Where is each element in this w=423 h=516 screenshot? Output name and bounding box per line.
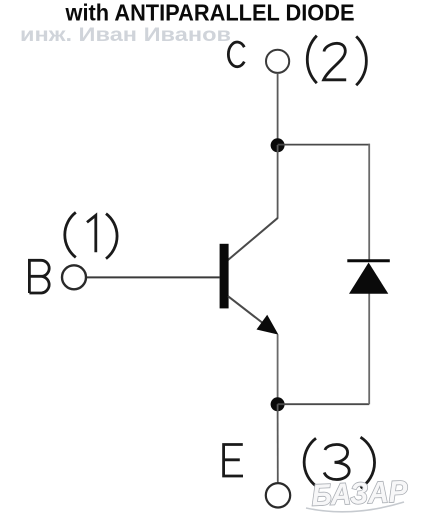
wire top horizontal to diode branch bbox=[278, 144, 370, 146]
svg-text:with ANTIPARALLEL DIODE: with ANTIPARALLEL DIODE bbox=[65, 0, 355, 26]
wire bottom horizontal to diode branch bbox=[278, 403, 370, 405]
watermark bazar logo bbox=[311, 475, 409, 512]
pin label (2) bbox=[307, 36, 366, 86]
transistor Q1 emitter arrowhead bbox=[257, 315, 279, 335]
terminal E circle bbox=[266, 483, 290, 507]
terminal label C bbox=[228, 42, 244, 67]
node top junction bbox=[271, 138, 285, 152]
svg-text:БАЗАР: БАЗАР bbox=[311, 475, 409, 512]
pin label (3) bbox=[304, 437, 374, 488]
diode D1 cathode bar bbox=[347, 259, 390, 262]
wire bottom node to E terminal bbox=[277, 404, 279, 482]
terminal label E bbox=[224, 445, 243, 477]
node bottom junction bbox=[271, 397, 285, 411]
wire diode branch upper vertical bbox=[368, 144, 370, 261]
transistor Q1 base bar bbox=[220, 244, 229, 309]
wire emitter arrow to bottom node bbox=[277, 335, 279, 401]
wire top node to collector bend bbox=[277, 145, 279, 218]
terminal C circle bbox=[266, 50, 289, 73]
wire base horizontal bbox=[87, 276, 220, 278]
diode D1 anode triangle bbox=[349, 263, 388, 294]
transistor Q1 collector diagonal bbox=[228, 218, 278, 260]
wire C circle to top node bbox=[277, 73, 279, 141]
wire diode branch lower vertical bbox=[368, 294, 370, 405]
terminal label B bbox=[29, 260, 49, 293]
terminal B circle bbox=[62, 265, 86, 289]
pin label (1) bbox=[65, 212, 117, 258]
svg-text:инж. Иван Иванов: инж. Иван Иванов bbox=[20, 25, 231, 46]
transistor Q1 emitter diagonal bbox=[228, 296, 275, 332]
